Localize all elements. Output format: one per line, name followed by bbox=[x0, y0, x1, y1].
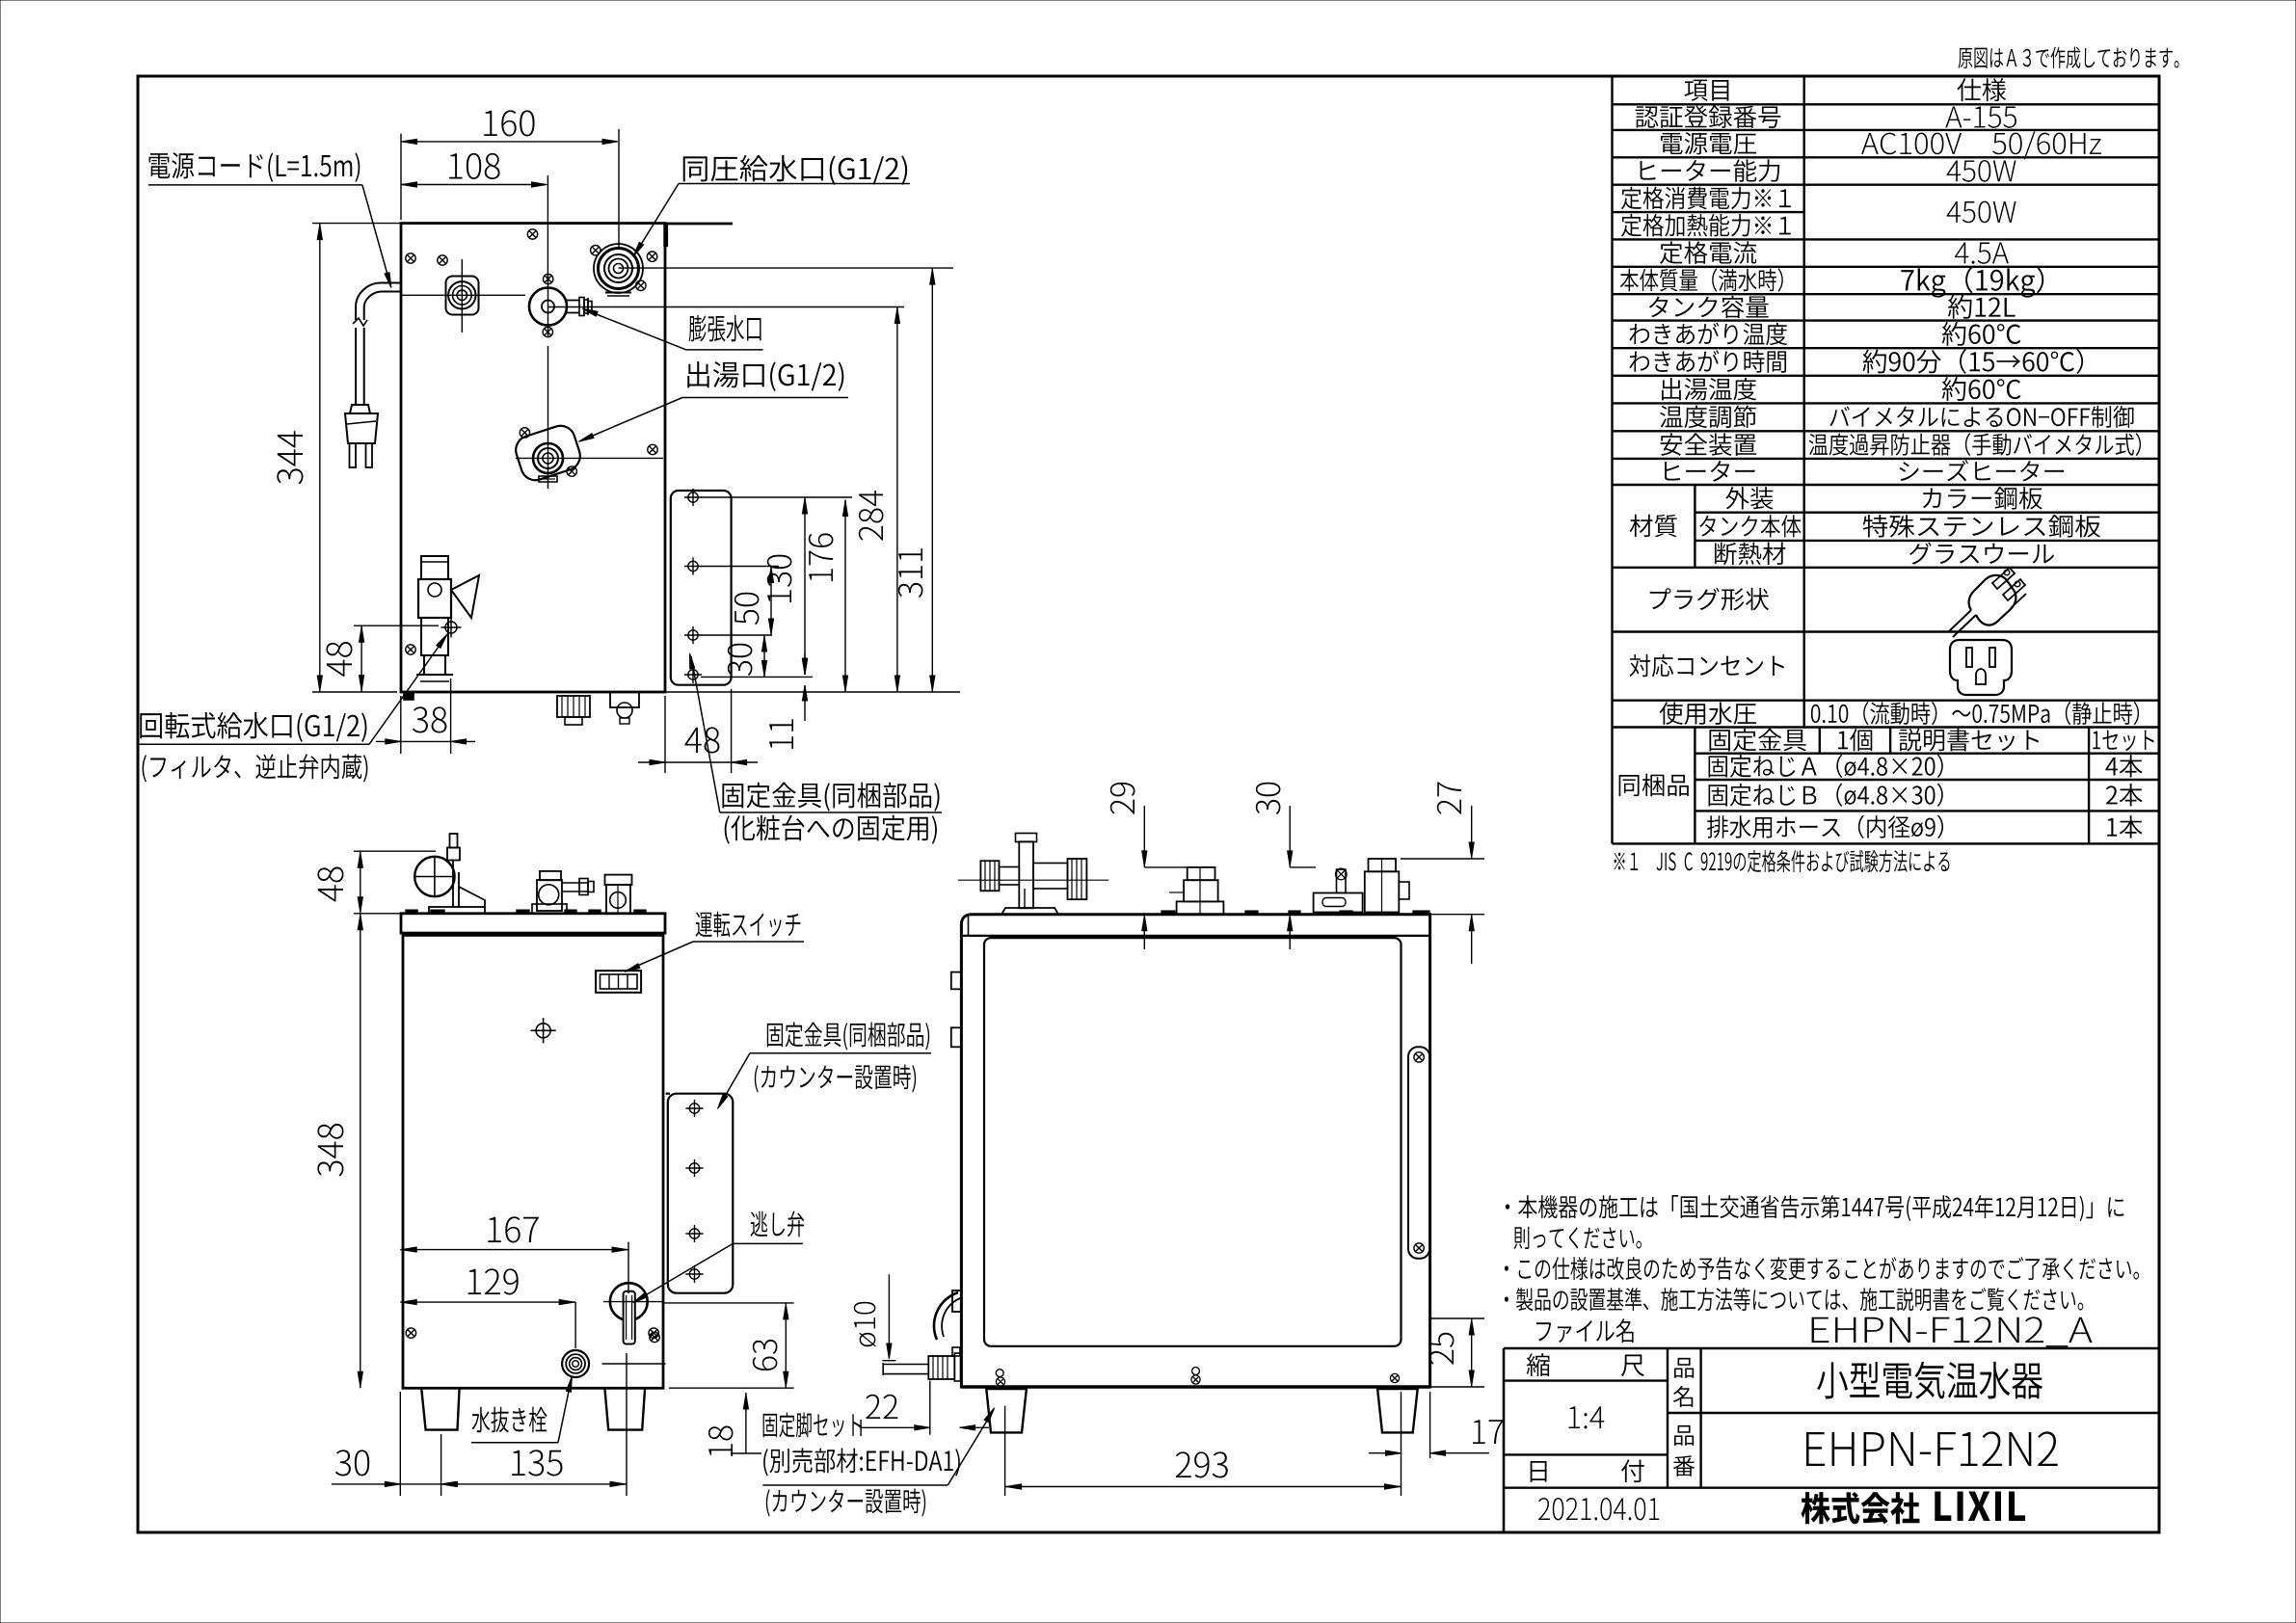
label: same-pressure inlet bbox=[683, 155, 907, 185]
side left tabs bbox=[951, 972, 962, 990]
bracket screws (top view) bbox=[688, 492, 698, 502]
dim 130 (top view) bbox=[804, 497, 806, 675]
hot water outlet (top view) bbox=[512, 422, 583, 484]
spec material rows bbox=[1630, 515, 1677, 537]
front view body bbox=[403, 935, 663, 1388]
title block: product name label bbox=[1674, 1358, 1694, 1378]
front bottom screws bbox=[406, 1328, 415, 1338]
front centre screw bbox=[536, 1024, 550, 1038]
label: relief valve bbox=[751, 1211, 804, 1237]
side view cap line bbox=[961, 935, 1429, 937]
dim 29 (side view) bbox=[1143, 806, 1145, 867]
dim 30 (top view) bbox=[763, 635, 765, 677]
fixing bracket (front view) bbox=[668, 1094, 734, 1293]
dim 30 (front view bottom) bbox=[399, 1392, 401, 1496]
outlet icon bbox=[1950, 640, 2012, 695]
spec table text bbox=[1684, 80, 1728, 101]
relief valve (front view) bbox=[610, 1283, 648, 1320]
title block: product name bbox=[1817, 1362, 2042, 1399]
label: rotary inlet bbox=[140, 712, 366, 742]
drawing frame bbox=[138, 76, 2159, 1532]
dim 160 (top view) bbox=[400, 134, 402, 220]
cap top tabs bbox=[406, 910, 417, 914]
fixing bracket (top view) bbox=[671, 491, 732, 685]
dim 30 (side view) bbox=[1289, 806, 1291, 867]
dim 22 (side view) bbox=[929, 1381, 931, 1435]
side cap top tabs bbox=[1161, 911, 1175, 915]
dim 63 (front view) bbox=[663, 1302, 794, 1304]
side view body outline bbox=[961, 915, 1429, 1387]
body screws (top view) bbox=[406, 253, 415, 263]
note JIS bbox=[1615, 850, 1950, 872]
power cord bbox=[356, 283, 401, 321]
dim 348 (front view) bbox=[360, 914, 361, 1389]
top view body bbox=[401, 224, 665, 692]
dim 284 (top view) bbox=[548, 306, 905, 308]
dim 293 (side view) bbox=[1004, 1406, 1006, 1496]
dim 27 (side view) bbox=[1401, 858, 1484, 860]
relief valve lever (side view) bbox=[934, 1292, 958, 1340]
side view inner panel bbox=[984, 938, 1402, 1346]
spec water pressure row bbox=[1660, 702, 1756, 725]
front fitting: expansion valve silhouette bbox=[537, 880, 562, 911]
dim 176 (top view) bbox=[844, 500, 846, 693]
label: fixing legs set bbox=[763, 1413, 862, 1438]
side bottom keyholes bbox=[996, 1370, 1003, 1377]
top view top-right flange line bbox=[665, 223, 733, 226]
plug icon bbox=[1948, 610, 1971, 632]
label: fixing bracket (front) bbox=[767, 1023, 929, 1051]
dim 311 (top view) bbox=[619, 267, 954, 269]
label: expansion port bbox=[689, 315, 761, 342]
spec plug shape row bbox=[1650, 588, 1769, 611]
label: operation switch bbox=[696, 912, 801, 938]
rotary water inlet valve (top view) bbox=[421, 556, 448, 579]
title block: company LIXIL bbox=[1801, 1492, 1919, 1524]
dim 48 (top view left) bbox=[354, 625, 439, 626]
installation notes bbox=[1506, 1195, 2124, 1221]
title block: scale bbox=[1527, 1353, 1550, 1376]
dim 135 (front view bottom) bbox=[626, 1353, 627, 1496]
dim 129 (front view) bbox=[400, 1301, 575, 1303]
power cord grommet bbox=[446, 277, 479, 315]
spec outlet row bbox=[1629, 654, 1784, 677]
side view bottom band line bbox=[961, 1385, 1429, 1388]
front view feet bbox=[421, 1388, 459, 1429]
spec accessories rows bbox=[1619, 774, 1689, 796]
label: drain plug bbox=[472, 1407, 547, 1433]
same-pressure water inlet (top view) bbox=[594, 244, 643, 293]
dim 11 (top view) bbox=[804, 653, 806, 675]
front view top cap bbox=[401, 914, 665, 933]
drain hose stub (side view) bbox=[928, 1356, 954, 1379]
dim 25 (side view) bbox=[1430, 1317, 1484, 1319]
side right mounting strip bbox=[1408, 1047, 1429, 1259]
front fitting: rotary inlet silhouette bbox=[414, 857, 454, 896]
dim 50 (top view) bbox=[770, 567, 772, 636]
side fitting: middle bbox=[1177, 901, 1224, 914]
title block: product number bbox=[1806, 1431, 2058, 1466]
label: fixing bracket (top view) bbox=[722, 783, 939, 811]
operation switch bbox=[596, 971, 641, 993]
side fitting: rotary inlet (left) bbox=[1019, 841, 1033, 908]
dim 108 (top view) bbox=[547, 175, 548, 281]
dim 38 (top view) bbox=[400, 696, 402, 754]
title block: file name row bbox=[1536, 1318, 1633, 1343]
bracket screw ref lines bbox=[701, 496, 852, 498]
dim 167 (front view) bbox=[627, 1242, 629, 1293]
bracket screws (front view) bbox=[689, 1104, 699, 1113]
title block: product number label bbox=[1674, 1425, 1694, 1446]
note: original is A3 bbox=[1959, 46, 2179, 68]
power plug bbox=[350, 405, 370, 413]
side fitting: right pair bbox=[1314, 893, 1363, 913]
front fitting: inlet silhouette bbox=[606, 885, 630, 914]
dim 344 (top view) bbox=[312, 223, 401, 225]
spec table grid bbox=[1613, 75, 2160, 77]
label: power cord bbox=[149, 152, 360, 182]
title block: date label bbox=[1531, 1461, 1547, 1482]
dim dia10 (side view) bbox=[888, 1274, 890, 1353]
title block grid bbox=[1504, 1347, 2159, 1350]
dim 48 (front view) bbox=[354, 850, 436, 852]
side view feet bbox=[986, 1389, 1027, 1432]
dim 48 (top view right) bbox=[664, 696, 666, 773]
label: hot water outlet bbox=[687, 361, 843, 391]
expansion port (top view) bbox=[529, 288, 567, 326]
dim 17 (side view) bbox=[1429, 1392, 1431, 1458]
spec 450W merged cell bbox=[1947, 201, 2016, 224]
drain plug (front view) bbox=[562, 1350, 589, 1377]
bottom fittings (top view) bbox=[404, 692, 414, 700]
dim 18 (front view) bbox=[745, 1393, 747, 1453]
